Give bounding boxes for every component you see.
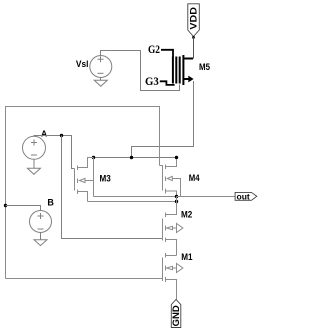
svg-text:G2: G2 xyxy=(148,42,160,56)
svg-text:GND: GND xyxy=(171,305,182,326)
node dot B xyxy=(4,204,7,207)
out flag xyxy=(235,192,257,200)
transistor M4 xyxy=(160,159,181,197)
node dot A xyxy=(60,134,63,137)
svg-text:M5: M5 xyxy=(199,62,211,73)
M5 source arrow xyxy=(188,76,193,83)
transistor M3 xyxy=(75,158,94,202)
wire M5 source return to rail xyxy=(132,81,194,158)
svg-text:Vsl: Vsl xyxy=(76,59,89,70)
transistor M1 xyxy=(163,253,183,300)
voltage source Vsl xyxy=(90,56,112,78)
node dot rail left xyxy=(92,156,95,159)
ground under B xyxy=(34,233,47,246)
wire G3 lead xyxy=(160,81,175,85)
transistor M2 xyxy=(163,202,183,256)
wire out xyxy=(177,196,236,198)
svg-text:M4: M4 xyxy=(189,173,200,184)
wire A down to M2 gate xyxy=(62,136,163,239)
node dot rail right xyxy=(175,156,178,159)
svg-text:A: A xyxy=(41,129,47,139)
GND power flag xyxy=(171,300,181,328)
svg-text:B: B xyxy=(47,197,54,207)
wire B plus to left rail xyxy=(6,206,41,211)
wire A node xyxy=(34,136,75,169)
voltage source A xyxy=(23,136,46,159)
voltage source B xyxy=(30,211,52,233)
svg-text:M2: M2 xyxy=(181,210,192,221)
node dot rail middle xyxy=(130,156,133,159)
svg-text:VDD: VDD xyxy=(189,7,199,30)
wire Vsl plus to M5 first gate xyxy=(101,51,180,91)
wire M3 drain node down to out line xyxy=(93,158,95,197)
svg-text:out: out xyxy=(237,191,250,201)
wire VDD to M5 drain xyxy=(193,37,195,58)
node dot at VDD tip xyxy=(192,36,195,39)
svg-text:M3: M3 xyxy=(100,173,111,184)
wire M3 bulk to out node xyxy=(94,196,177,198)
wire M3 source to M2 drain node xyxy=(88,201,177,203)
node dot out upper xyxy=(175,195,178,198)
svg-text:M1: M1 xyxy=(181,252,193,263)
transistor M5 (triple-gate PMOS, bold) xyxy=(173,55,193,85)
ground under A xyxy=(27,159,40,174)
svg-text:G3: G3 xyxy=(145,74,159,88)
VDD power flag xyxy=(188,4,200,37)
wire between out dots xyxy=(176,197,178,202)
wire net B box: left rail, top line, leg to M4 gate xyxy=(6,107,160,279)
wire rail M3/M4 drains xyxy=(94,157,177,159)
wire net B bottom to M1 gate xyxy=(6,278,163,280)
wire G2 lead xyxy=(161,50,173,57)
ground under Vsl xyxy=(94,78,107,87)
node dot out lower xyxy=(175,200,178,203)
